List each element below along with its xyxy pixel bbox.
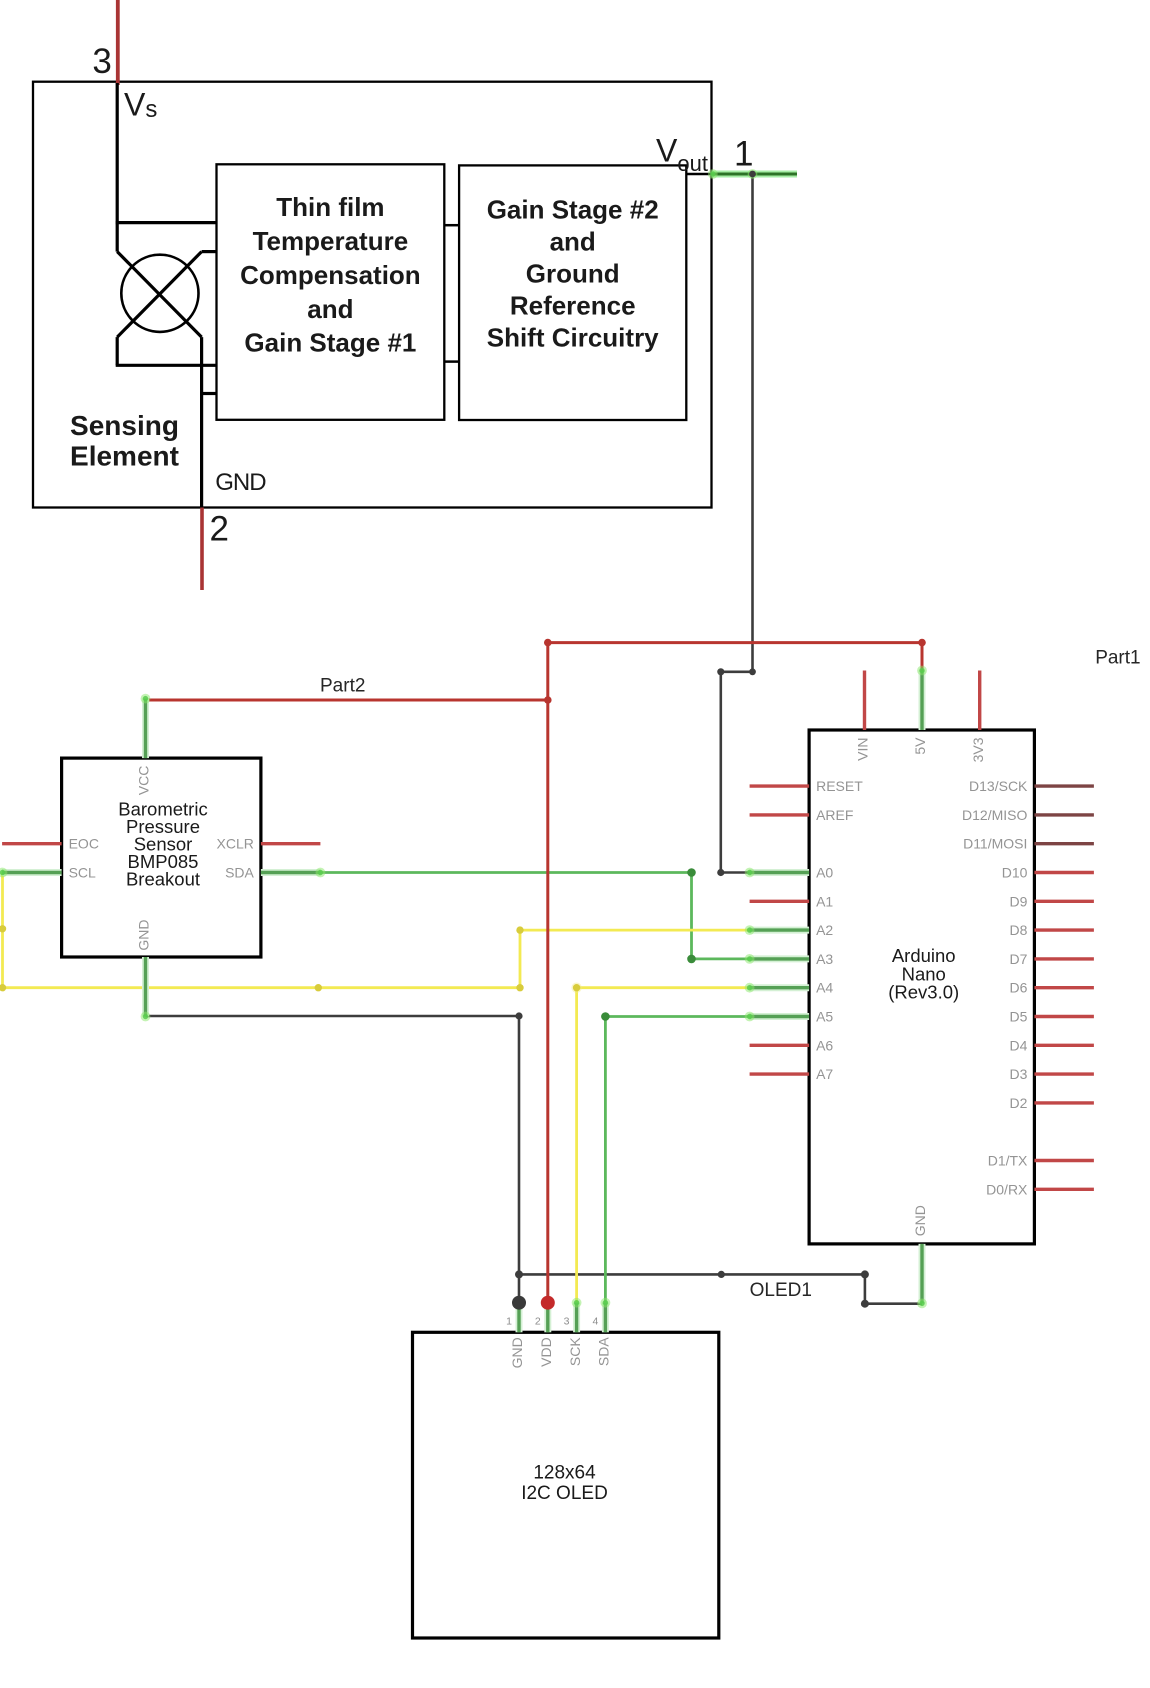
svg-text:3: 3 [564,1316,570,1328]
svg-text:Compensation: Compensation [240,260,421,290]
svg-text:D1/TX: D1/TX [988,1153,1028,1169]
svg-text:Shift Circuitry: Shift Circuitry [487,323,659,353]
svg-text:RESET: RESET [816,778,863,794]
svg-text:Element: Element [70,441,179,472]
svg-text:and: and [307,294,353,324]
svg-text:A5: A5 [816,1009,833,1025]
svg-text:A7: A7 [816,1066,833,1082]
svg-text:2: 2 [210,510,229,549]
svg-text:XCLR: XCLR [217,836,254,852]
svg-text:D8: D8 [1009,922,1027,938]
svg-text:A6: A6 [816,1037,833,1053]
svg-text:GND: GND [912,1205,928,1236]
svg-text:Part1: Part1 [1095,648,1140,669]
svg-text:I2C OLED: I2C OLED [521,1483,608,1504]
svg-text:2: 2 [535,1316,541,1328]
svg-text:D11/MOSI: D11/MOSI [963,836,1027,852]
svg-text:A3: A3 [816,951,833,967]
svg-text:and: and [550,226,596,256]
svg-text:OLED1: OLED1 [750,1280,812,1301]
svg-text:D12/MISO: D12/MISO [962,807,1027,823]
svg-text:4: 4 [592,1316,598,1328]
svg-text:D2: D2 [1009,1095,1027,1111]
svg-text:1: 1 [734,134,753,173]
svg-text:EOC: EOC [69,836,99,852]
svg-text:D13/SCK: D13/SCK [969,778,1028,794]
svg-text:SCL: SCL [69,865,96,881]
svg-text:D9: D9 [1009,893,1027,909]
svg-text:3: 3 [92,42,111,81]
svg-text:D3: D3 [1009,1066,1027,1082]
svg-text:(Rev3.0): (Rev3.0) [888,982,959,1003]
svg-text:Part2: Part2 [320,676,365,697]
svg-text:VDD: VDD [538,1337,554,1367]
svg-text:Gain Stage #2: Gain Stage #2 [487,194,659,224]
svg-text:SCK: SCK [567,1337,583,1366]
svg-text:GND: GND [215,469,266,496]
svg-text:Ground: Ground [526,259,620,289]
svg-text:D7: D7 [1009,951,1027,967]
svg-text:Thin film: Thin film [276,192,384,222]
svg-text:A2: A2 [816,922,833,938]
svg-text:Reference: Reference [510,291,636,321]
svg-text:VIN: VIN [855,738,871,761]
svg-text:D0/RX: D0/RX [986,1181,1028,1197]
svg-text:AREF: AREF [816,807,853,823]
svg-text:D10: D10 [1002,865,1028,881]
svg-text:A0: A0 [816,865,833,881]
svg-text:3V3: 3V3 [970,737,986,762]
svg-text:A1: A1 [816,893,833,909]
svg-text:SDA: SDA [596,1337,612,1366]
svg-text:Breakout: Breakout [126,868,200,889]
svg-text:GND: GND [509,1337,525,1368]
svg-text:GND: GND [136,919,152,950]
svg-text:VCC: VCC [136,766,152,796]
svg-text:Temperature: Temperature [253,226,409,256]
svg-text:D6: D6 [1009,980,1027,996]
svg-text:1: 1 [506,1316,512,1328]
svg-text:128x64: 128x64 [533,1462,596,1483]
svg-text:5V: 5V [912,737,928,755]
svg-text:Gain Stage #1: Gain Stage #1 [244,328,416,358]
svg-text:SDA: SDA [225,865,254,881]
svg-text:Sensing: Sensing [70,410,179,441]
svg-text:D5: D5 [1009,1009,1027,1025]
svg-text:D4: D4 [1009,1037,1027,1053]
svg-text:A4: A4 [816,980,833,996]
